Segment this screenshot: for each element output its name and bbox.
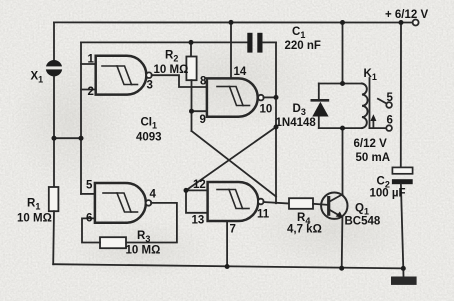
schmitt symbol gate C — [103, 193, 138, 212]
svg-text:1: 1 — [88, 54, 95, 66]
schmitt symbol gate A — [102, 66, 138, 85]
sensor X1 — [46, 60, 63, 76]
svg-text:14: 14 — [234, 66, 247, 78]
wire pin 2 stub — [81, 89, 96, 91]
transistor Q1 — [321, 193, 347, 219]
node output 11 bubble — [258, 199, 264, 205]
node output 4 bubble — [146, 200, 152, 206]
wire right vertical (C1 to out11 wire) — [275, 42, 277, 203]
svg-text:10 MΩ: 10 MΩ — [17, 213, 52, 225]
node pin 12 — [184, 188, 189, 193]
svg-text:9: 9 — [200, 114, 206, 126]
capacitor C2 — [392, 167, 413, 184]
svg-text:6: 6 — [86, 213, 92, 225]
svg-text:10: 10 — [260, 104, 273, 116]
svg-text:1N4148: 1N4148 — [276, 117, 317, 129]
node jumper left — [52, 136, 57, 141]
schmitt symbol gate B — [217, 87, 250, 106]
svg-text:12: 12 — [193, 179, 206, 191]
wire output 10 to right vertical — [264, 96, 277, 98]
wire top supply rail — [54, 21, 413, 23]
wire ground stub — [402, 268, 404, 276]
svg-text:4,7 kΩ: 4,7 kΩ — [287, 224, 322, 236]
wire R3 to pin 6 — [82, 218, 100, 242]
ground — [391, 277, 417, 285]
wire R4 to base — [313, 204, 327, 205]
svg-text:6: 6 — [387, 115, 393, 127]
schmitt symbol gate D — [217, 190, 249, 209]
svg-text:11: 11 — [257, 209, 270, 221]
node contact 6 — [386, 125, 392, 131]
wire pin 13 jog — [186, 190, 208, 212]
capacitor C1 — [247, 33, 276, 53]
wire pin 12 stub — [186, 189, 208, 191]
resistor R4 — [289, 198, 313, 209]
wire output 3 to pin 8 — [152, 75, 207, 87]
relay armature line — [369, 78, 371, 128]
node relay top — [340, 81, 345, 86]
node diagonal B start — [274, 125, 279, 130]
node ground emitter — [339, 266, 344, 271]
wire right rail top — [400, 23, 402, 168]
nand gate U1A 4093 (pins 1,2 -> 3) — [96, 56, 147, 95]
svg-text:4: 4 — [150, 189, 157, 201]
svg-text:4093: 4093 — [136, 132, 162, 144]
node ground pin7 — [225, 264, 230, 269]
wire pin 14 supply stub — [230, 22, 232, 78]
wire input jumper — [54, 137, 81, 139]
node R2 top — [189, 40, 194, 45]
wire bottom ground rail — [53, 264, 403, 268]
svg-text:2: 2 — [88, 86, 94, 98]
node ground right — [401, 266, 406, 271]
wire output 11 to R4 — [263, 202, 289, 204]
node relay bottom — [340, 126, 345, 131]
svg-text:7: 7 — [230, 224, 236, 236]
wire pin 5 stub — [81, 193, 95, 195]
nand gate U1B 4093 (pins 8,9 -> 10) — [207, 78, 258, 116]
svg-text:13: 13 — [192, 215, 205, 227]
nand gate U1D 4093 (pins 12,13 -> 11) — [208, 182, 259, 221]
node output 3 bubble — [146, 72, 152, 78]
svg-text:8: 8 — [200, 76, 207, 88]
wire X1 drop from rail — [53, 22, 55, 60]
wire top link (pins 1-2 to R2 top and C1) — [81, 41, 248, 43]
wire gate input vertical (pins 1-2-5) — [80, 42, 82, 194]
svg-text:10 MΩ: 10 MΩ — [154, 64, 189, 76]
svg-text:6/12 V: 6/12 V — [354, 138, 388, 150]
svg-text:220 nF: 220 nF — [285, 40, 321, 52]
wire collector to relay — [342, 128, 344, 194]
wire pin 1 stub — [81, 63, 96, 65]
resistor R2 — [186, 42, 196, 87]
wire R1 to bottom rail — [52, 211, 55, 264]
node rail-right — [399, 20, 404, 25]
node pin 9 — [189, 109, 194, 114]
wire pin 7 ground stub — [226, 221, 228, 267]
resistor R1 — [49, 187, 59, 211]
wire output 4 to R3 — [126, 203, 177, 243]
relay K1 coil box — [319, 84, 368, 129]
node output 10 bubble — [258, 95, 264, 101]
relay contact blade to 5 — [378, 99, 387, 104]
wire right rail bottom — [401, 184, 403, 268]
nand gate U1C 4093 (pins 5,6 -> 4) — [95, 183, 146, 223]
wire contact 6 — [370, 127, 387, 129]
wire X1 to R1 — [53, 76, 55, 187]
relay actuation arrow — [370, 114, 376, 128]
node rail-relay — [340, 20, 345, 25]
wire diagonal B (out10 to pins 12-13) — [186, 127, 276, 190]
svg-text:+ 6/12 V: + 6/12 V — [385, 9, 428, 21]
diode D3 1N4148 — [312, 100, 329, 116]
svg-text:BC548: BC548 — [345, 216, 381, 228]
resistor R3 — [100, 237, 126, 248]
wire relay feed from rail — [342, 23, 344, 84]
node jumper right — [79, 136, 84, 141]
svg-text:10 MΩ: 10 MΩ — [126, 245, 161, 257]
node contact 5 — [386, 102, 392, 108]
wire emitter to ground rail — [341, 218, 344, 269]
svg-text:5: 5 — [387, 92, 394, 104]
svg-text:3: 3 — [147, 80, 153, 92]
svg-text:100 µF: 100 µF — [370, 188, 406, 200]
node out 10 — [274, 95, 279, 100]
svg-text:5: 5 — [86, 180, 93, 192]
svg-text:50 mA: 50 mA — [356, 152, 391, 164]
wire diagonal A (to output 11 node) — [192, 131, 277, 197]
wire pin 9 branch — [192, 87, 207, 131]
node supply terminal +6/12V — [413, 20, 419, 26]
node rail-pin14 — [229, 20, 234, 25]
